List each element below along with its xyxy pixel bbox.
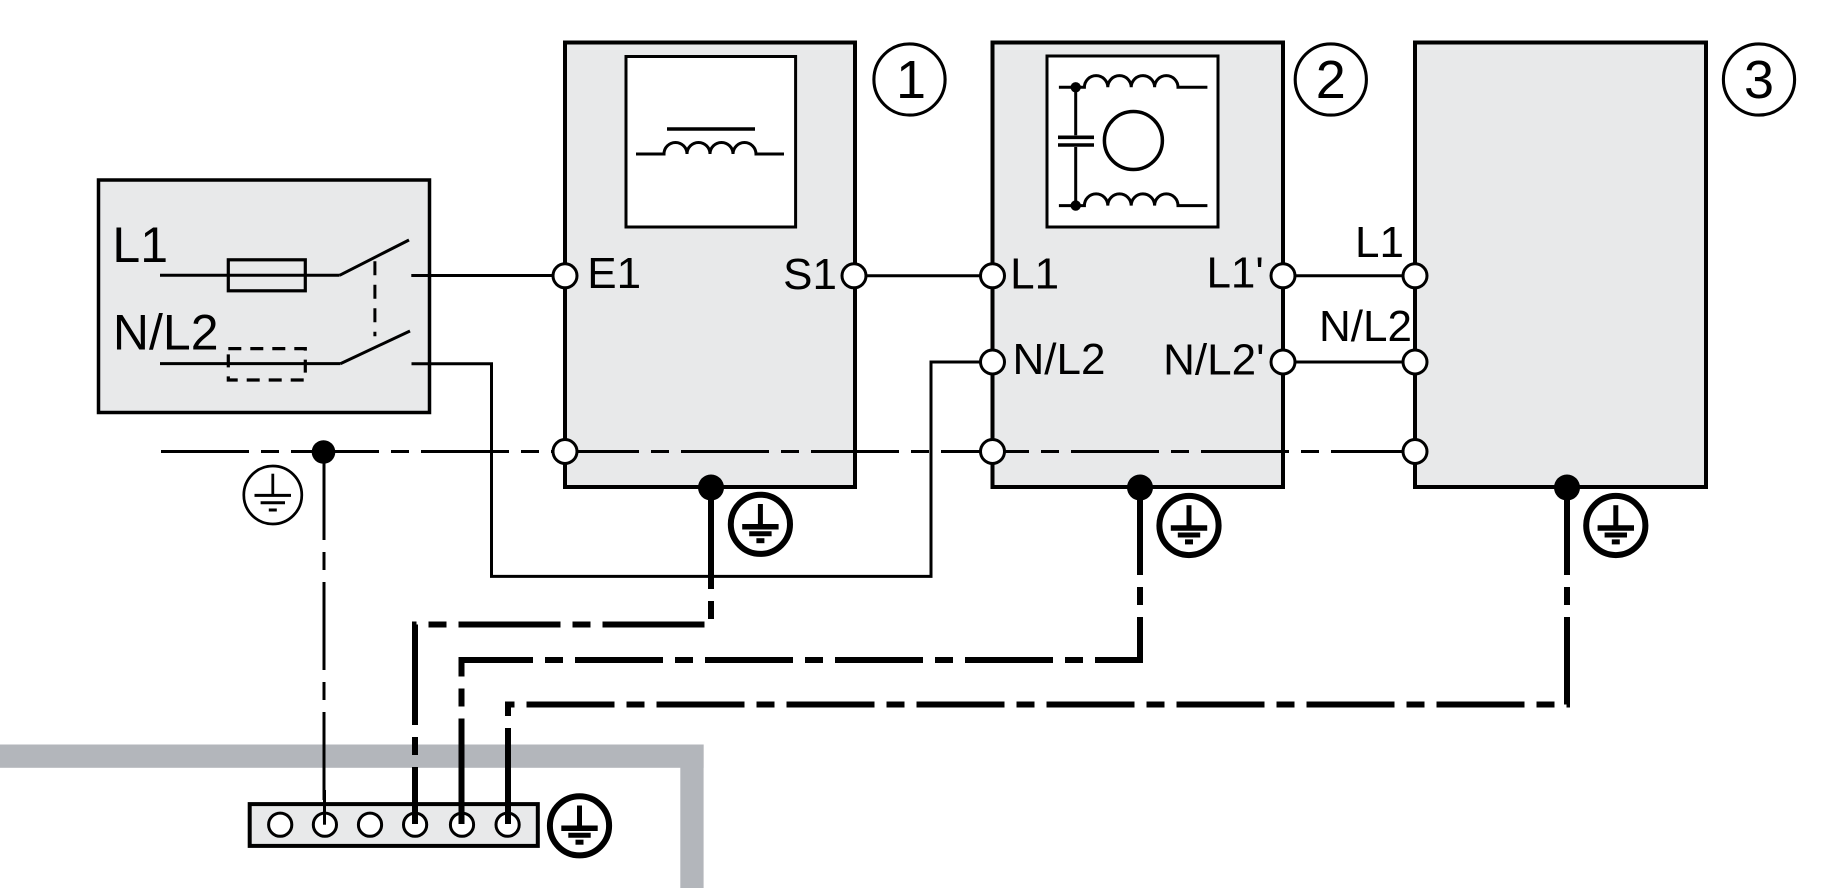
svg-text:N/L2: N/L2 (1319, 302, 1412, 351)
inductor with core symbol in box 1 (636, 129, 784, 154)
device box 2 (mains filter module) (993, 43, 1284, 488)
terminal L1 box2 (981, 264, 1005, 288)
switch coupling (dashed) (373, 261, 376, 336)
svg-text:L1: L1 (1010, 249, 1059, 298)
terminal strip (earth bar) (250, 804, 538, 846)
mains supply box (switch + fuse) (99, 180, 430, 413)
terminal PE box2 (981, 440, 1005, 464)
mains filter symbol in box 2 (1058, 76, 1207, 211)
terminal E1 (553, 264, 577, 288)
svg-text:1: 1 (896, 50, 926, 110)
earth bar terminal holes (269, 813, 520, 836)
svg-text:L1: L1 (112, 217, 168, 273)
terminal N/L2' box2 (1271, 350, 1295, 374)
EMC ground strap box 2 (thick dash-dot) (462, 487, 1141, 824)
ground node box 3 (1554, 475, 1580, 501)
mounting-plate gray band (L-shape) (0, 745, 704, 888)
terminal PE box1 (553, 440, 577, 464)
callout circle 1 (874, 44, 945, 115)
inner symbol frame of box 2 (1047, 56, 1218, 227)
terminal S1 (842, 264, 866, 288)
wire N/L2 inside supply box (160, 362, 341, 365)
wire from switch L1 to E1 (411, 274, 565, 277)
terminal N/L2 box2 (981, 350, 1005, 374)
wire L1 inside supply box (160, 274, 340, 277)
wire from switch N/L2 to box 2 N/L2 (412, 362, 993, 576)
svg-text:2: 2 (1316, 50, 1346, 110)
switch blade L1 (340, 240, 409, 275)
svg-text:N/L2': N/L2' (1163, 336, 1264, 385)
PE symbol (thin) at supply (244, 466, 302, 524)
EMC ground strap box 3 (thick dash-dot) (508, 487, 1567, 824)
terminal L1' box2 (1271, 264, 1295, 288)
strap ends into holes 4,5,6 (415, 795, 508, 824)
terminal N/L2 box3 (1403, 350, 1427, 374)
svg-text:L1': L1' (1206, 249, 1263, 298)
PE equipotential line (dash-dot) (161, 450, 1415, 453)
terminal L1 box3 (1403, 264, 1427, 288)
PE drop wire to earth bar (dashed) (323, 452, 326, 800)
PE symbol (bold) box 1 (731, 495, 790, 554)
PE drop wire end into hole 2 (323, 790, 326, 825)
callout circle 2 (1295, 44, 1366, 115)
callout circle 3 (1723, 44, 1794, 115)
svg-text:N/L2: N/L2 (1013, 335, 1106, 384)
device box 1 (ferrite/choke module) (565, 43, 855, 488)
svg-text:S1: S1 (783, 250, 837, 299)
switch blade N/L2 (341, 331, 410, 364)
optional fuse (dashed) (228, 349, 305, 380)
PE symbol (bold) box 2 (1159, 496, 1218, 555)
svg-text:3: 3 (1744, 50, 1774, 110)
PE junction node (312, 440, 336, 464)
ground node box 2 (1127, 475, 1153, 501)
EMC ground strap box 1 (thick dash-dot) (415, 487, 711, 824)
fuse F1 (228, 260, 305, 291)
inner symbol frame of box 1 (626, 57, 796, 228)
svg-text:L1: L1 (1355, 218, 1404, 267)
wire L1' to box3 L1 (1283, 274, 1415, 277)
device box 3 (load device) (1415, 43, 1706, 488)
ground node box 1 (698, 475, 724, 501)
terminal PE box3 (1403, 440, 1427, 464)
svg-text:E1: E1 (587, 249, 641, 298)
wire S1 to box2 L1 (854, 274, 993, 277)
wire N/L2' to box3 N/L2 (1283, 361, 1415, 364)
PE symbol (bold) at earth bar (550, 796, 609, 855)
svg-text:N/L2: N/L2 (113, 304, 219, 360)
PE symbol (bold) box 3 (1586, 496, 1645, 555)
